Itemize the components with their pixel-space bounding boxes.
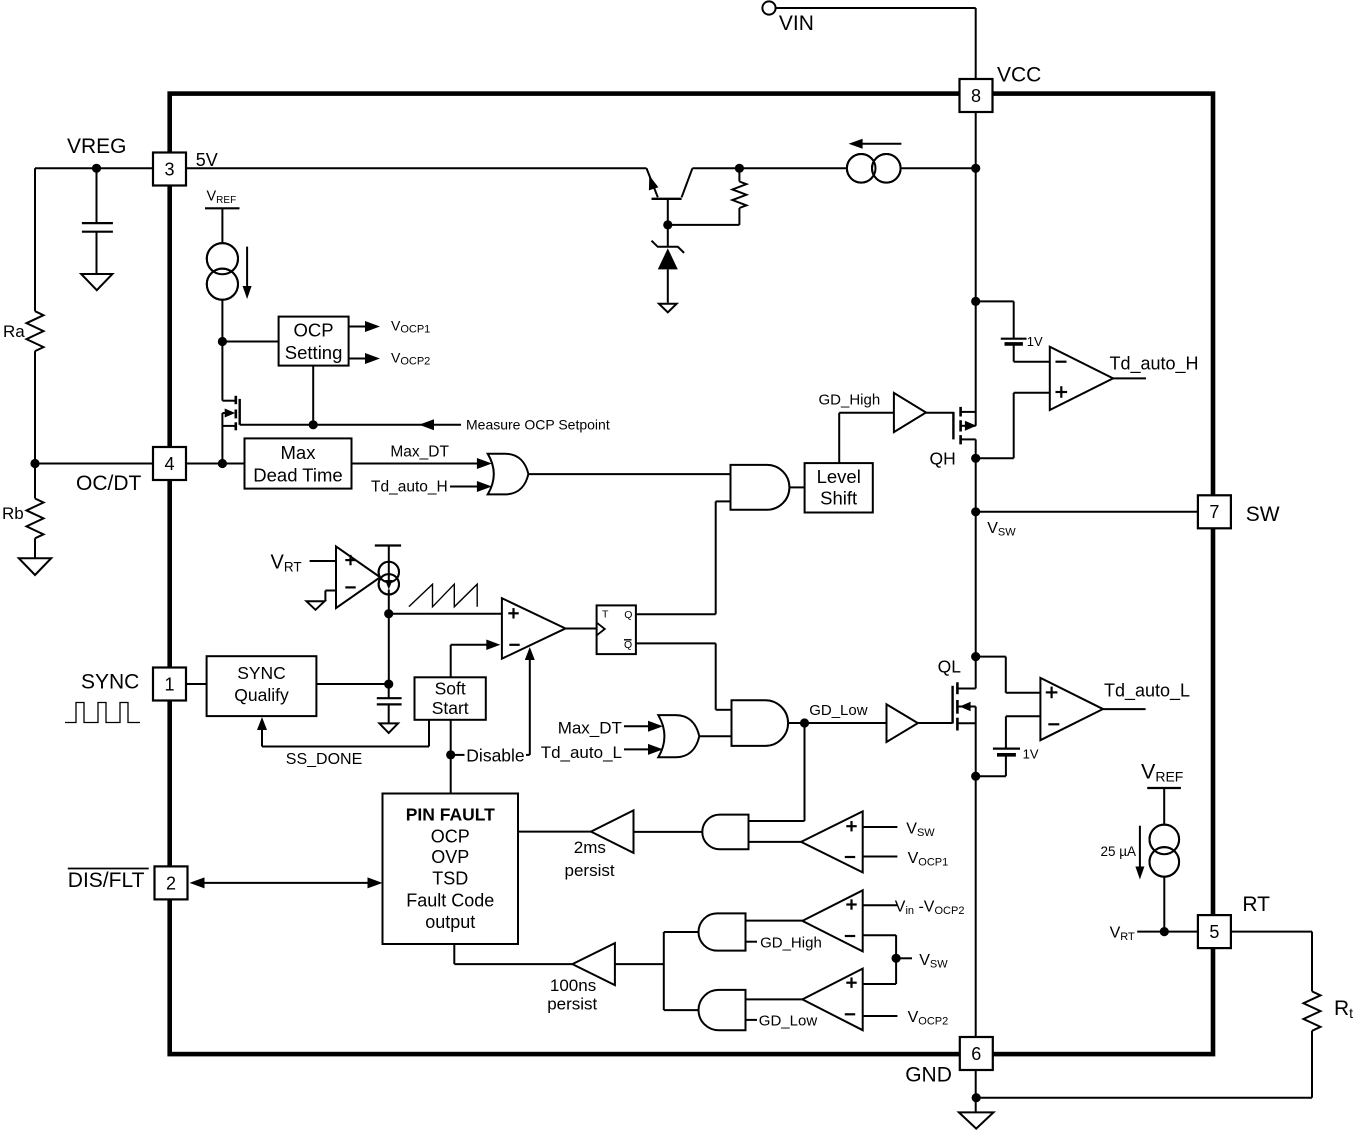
svg-text:1V: 1V (1023, 747, 1039, 762)
svg-text:GD_Low: GD_Low (759, 1012, 818, 1029)
svg-text:1V: 1V (1027, 334, 1043, 349)
svg-text:QH: QH (930, 449, 956, 469)
svg-text:DIS/FLT: DIS/FLT (68, 869, 145, 892)
svg-text:Level: Level (817, 466, 861, 487)
svg-text:VREG: VREG (67, 135, 127, 158)
svg-text:SYNC: SYNC (81, 671, 139, 694)
svg-text:RT: RT (1242, 893, 1270, 916)
svg-text:GND: GND (905, 1064, 952, 1087)
svg-text:2: 2 (166, 873, 176, 893)
svg-text:QL: QL (938, 657, 962, 677)
svg-text:SW: SW (1246, 503, 1280, 526)
svg-text:4: 4 (164, 454, 174, 474)
svg-text:5V: 5V (196, 150, 218, 170)
svg-text:Rb: Rb (2, 504, 24, 523)
svg-text:Max_DT: Max_DT (390, 444, 449, 461)
svg-text:Ra: Ra (3, 322, 25, 341)
svg-text:Td_auto_L: Td_auto_L (1104, 681, 1190, 702)
svg-text:1: 1 (164, 674, 174, 694)
svg-text:8: 8 (971, 86, 981, 106)
svg-text:Qualify: Qualify (234, 685, 289, 705)
svg-text:OCP: OCP (294, 320, 334, 341)
svg-text:PIN FAULT: PIN FAULT (406, 805, 495, 825)
svg-text:Start: Start (432, 698, 469, 718)
svg-text:Td_auto_L: Td_auto_L (541, 743, 622, 762)
svg-text:persist: persist (565, 861, 615, 880)
svg-text:3: 3 (164, 159, 174, 179)
svg-text:OVP: OVP (431, 847, 469, 867)
svg-text:GD_Low: GD_Low (809, 702, 868, 719)
svg-text:100ns: 100ns (550, 976, 596, 995)
svg-text:7: 7 (1209, 502, 1219, 522)
svg-text:Measure OCP Setpoint: Measure OCP Setpoint (466, 417, 610, 433)
svg-text:Soft: Soft (435, 679, 466, 699)
svg-text:SYNC: SYNC (237, 663, 286, 683)
svg-text:VIN: VIN (779, 12, 814, 35)
svg-text:GD_High: GD_High (819, 392, 881, 409)
svg-text:Td_auto_H: Td_auto_H (1110, 354, 1199, 375)
svg-text:T: T (602, 609, 609, 621)
svg-text:OCP: OCP (431, 827, 470, 847)
svg-text:5: 5 (1209, 922, 1219, 942)
svg-text:VCC: VCC (997, 64, 1041, 87)
svg-text:TSD: TSD (432, 869, 468, 889)
svg-text:Td_auto_H: Td_auto_H (371, 479, 448, 496)
svg-text:Setting: Setting (285, 342, 343, 363)
svg-text:Max: Max (281, 442, 317, 463)
svg-text:Fault Code: Fault Code (406, 891, 494, 911)
svg-text:persist: persist (547, 995, 597, 1014)
svg-text:Shift: Shift (820, 488, 857, 509)
svg-text:Disable: Disable (466, 746, 524, 766)
svg-text:Q: Q (624, 609, 632, 621)
svg-text:GD_High: GD_High (760, 934, 822, 951)
svg-text:output: output (425, 912, 475, 932)
svg-text:Dead Time: Dead Time (253, 465, 342, 486)
svg-text:OC/DT: OC/DT (76, 472, 142, 495)
svg-text:2ms: 2ms (574, 838, 606, 857)
svg-text:Max_DT: Max_DT (558, 719, 622, 738)
svg-text:25 µA: 25 µA (1101, 844, 1137, 859)
svg-text:Q: Q (624, 639, 632, 651)
svg-text:SS_DONE: SS_DONE (286, 751, 362, 768)
svg-text:6: 6 (971, 1044, 981, 1064)
